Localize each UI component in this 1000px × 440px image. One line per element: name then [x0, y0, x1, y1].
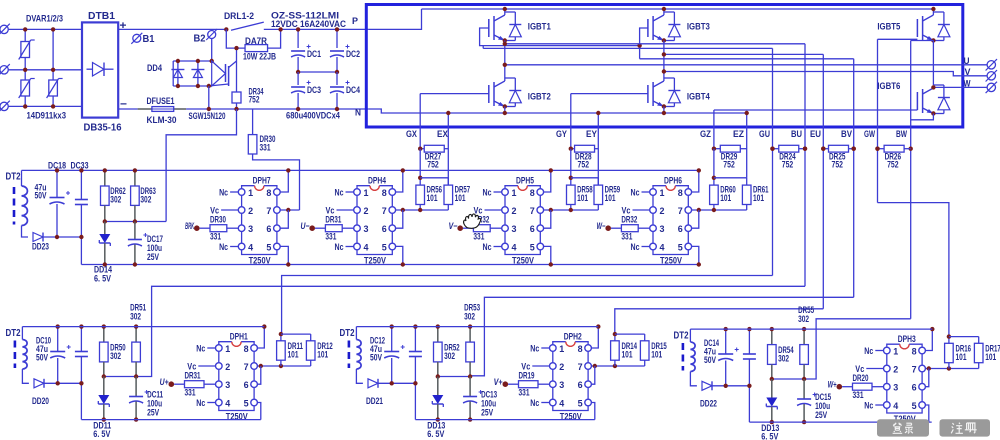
svg-text:U−: U−	[301, 221, 311, 231]
svg-text:GU: GU	[759, 129, 770, 139]
svg-text:302: 302	[444, 351, 455, 361]
fuse DFUSE1	[138, 108, 152, 110]
wire DPH7 pin7 line	[280, 209, 299, 211]
vertical GY	[570, 94, 572, 149]
svg-text:3: 3	[364, 224, 369, 235]
svg-text:1: 1	[248, 188, 254, 199]
svg-text:302: 302	[798, 314, 809, 324]
resistor DR32 331 (DPH5 input)	[457, 225, 463, 231]
svg-text:5: 5	[912, 401, 918, 412]
vertical BW	[911, 40, 934, 42]
wire DPH3 pin8 riser	[925, 329, 932, 350]
svg-text:3: 3	[893, 383, 898, 394]
wire top rail DPH1 block	[22, 326, 264, 328]
wire junction row	[104, 376, 136, 378]
wire L1 to bridge	[9, 28, 82, 30]
svg-text:302: 302	[464, 312, 475, 322]
svg-text:DC4: DC4	[346, 85, 360, 95]
svg-text:IGBT2: IGBT2	[528, 92, 551, 103]
zener DD11 6.5V	[103, 377, 105, 396]
svg-text:8: 8	[678, 188, 683, 199]
transistor IGBT5	[916, 19, 918, 37]
wire DPH5 pin7 line	[544, 209, 599, 211]
wire bottom rail DPH2 block	[415, 419, 594, 421]
transistor IGBT2	[488, 85, 490, 103]
svg-text:DPH1: DPH1	[230, 331, 248, 341]
svg-text:6: 6	[578, 380, 583, 391]
vertical EZ	[746, 113, 748, 178]
svg-text:4: 4	[225, 398, 231, 409]
glyph zhu (register)	[951, 423, 963, 434]
mid node wire	[298, 71, 337, 73]
svg-text:DC2: DC2	[346, 49, 360, 59]
resistor DR56 101 (gate)	[419, 149, 421, 185]
wire top rail DPH2 block	[356, 326, 598, 328]
resistor DR12 101	[310, 334, 312, 341]
resistor DR54 302	[771, 329, 773, 345]
svg-text:DRL1-2: DRL1-2	[224, 11, 254, 22]
collector riser + resistor DR34 752	[236, 48, 238, 92]
svg-text:DPH6: DPH6	[664, 175, 682, 185]
resistor DR58 101 (gate)	[570, 149, 572, 185]
svg-text:GZ: GZ	[700, 129, 711, 139]
wire DPH4 pin7 line	[396, 209, 449, 211]
resistor DR32 331 (DPH6 input)	[605, 225, 611, 231]
svg-text:331: 331	[853, 390, 864, 400]
svg-text:5: 5	[578, 398, 584, 409]
capacitor DC12 47u 50V	[391, 327, 393, 352]
svg-text:2: 2	[559, 362, 564, 373]
svg-text:5: 5	[244, 398, 250, 409]
wire W midpoint	[932, 41, 934, 86]
bridge rectifier DTB1	[82, 22, 118, 117]
svg-text:N: N	[355, 108, 361, 119]
svg-text:DTB1: DTB1	[88, 10, 115, 22]
wire top rail DPH3 block	[690, 328, 932, 330]
wire U midpoint	[504, 41, 506, 82]
varistor column wires	[24, 29, 26, 106]
svg-text:DC1: DC1	[307, 49, 321, 59]
wire P entry	[368, 9, 421, 29]
svg-text:101: 101	[427, 193, 438, 203]
junction dots varistor rows	[23, 27, 27, 31]
svg-text:50V: 50V	[704, 355, 716, 365]
wire internal P rail	[422, 8, 934, 10]
svg-text:1: 1	[512, 188, 518, 199]
svg-text:3: 3	[248, 224, 253, 235]
svg-text:25V: 25V	[481, 408, 493, 418]
svg-text:6: 6	[266, 224, 271, 235]
svg-text:W+: W+	[828, 380, 837, 390]
wire EU to DPH2 gate feed (line D)	[615, 309, 824, 334]
resistor DR16 101	[948, 337, 950, 344]
diode DD20	[34, 379, 44, 388]
wire DPH2 pin5 riser	[591, 403, 594, 420]
svg-text:302: 302	[140, 195, 151, 205]
resistor DR31 331 (DPH1 input)	[169, 381, 175, 387]
resistor DR26 752	[878, 148, 885, 150]
relay contact DRL1-2	[224, 27, 228, 31]
wire L2 to bridge	[9, 69, 82, 71]
svg-text:7: 7	[530, 206, 535, 217]
wire DPH5 pin8 riser	[544, 170, 551, 192]
svg-text:DD4: DD4	[147, 63, 163, 74]
svg-text:IGBT1: IGBT1	[528, 22, 552, 33]
terminal W	[987, 83, 995, 91]
wire DPH4 pin5 riser	[396, 246, 403, 264]
svg-text:331: 331	[325, 232, 336, 242]
wire emitter reference drop	[166, 109, 236, 222]
svg-text:6: 6	[530, 224, 535, 235]
wire DPH4 pin6 riser	[396, 210, 403, 228]
svg-text:5: 5	[382, 242, 388, 253]
resistor DR17 101	[978, 337, 980, 344]
svg-text:Nc: Nc	[530, 343, 539, 353]
input terminal L1	[0, 25, 8, 33]
vertical BV	[853, 59, 855, 297]
svg-text:25V: 25V	[147, 252, 159, 262]
glyph deng (login)	[893, 423, 903, 434]
svg-text:10W 22JB: 10W 22JB	[243, 52, 276, 63]
terminal B2	[208, 31, 216, 39]
svg-text:DPH3: DPH3	[898, 334, 916, 344]
svg-text:KLM-30: KLM-30	[147, 115, 177, 126]
zener DD13 6.5V	[771, 379, 773, 398]
svg-text:DD22: DD22	[700, 399, 717, 410]
optocoupler DPH4	[357, 186, 370, 189]
varistor DVAR2	[21, 80, 30, 96]
svg-text:4: 4	[248, 242, 254, 253]
wire IGBT6 emitter jog to BW	[911, 114, 934, 120]
svg-text:4: 4	[893, 401, 899, 412]
svg-text:7: 7	[266, 206, 271, 217]
svg-text:DR32: DR32	[621, 215, 637, 225]
svg-text:101: 101	[317, 350, 328, 360]
svg-text:Nc: Nc	[196, 343, 205, 353]
svg-text:DFUSE1: DFUSE1	[147, 96, 176, 107]
svg-text:DT2: DT2	[674, 331, 689, 342]
capacitor DC33	[80, 170, 82, 199]
wire U output	[505, 64, 961, 66]
svg-text:302: 302	[110, 351, 121, 361]
svg-text:BW: BW	[896, 129, 907, 139]
svg-text:Nc: Nc	[219, 242, 228, 252]
vertical EY	[597, 113, 599, 185]
svg-text:8: 8	[530, 188, 535, 199]
button register	[940, 419, 991, 436]
resistor DR14 101	[614, 334, 616, 341]
svg-text:DA7R: DA7R	[245, 36, 267, 47]
capacitor (unlabeled)	[748, 329, 750, 354]
svg-text:Nc: Nc	[335, 242, 344, 252]
capacitor (unlabeled)	[80, 327, 82, 352]
vertical GW	[877, 39, 879, 202]
svg-text:1: 1	[660, 188, 666, 199]
resistor DR24 752	[773, 148, 779, 150]
svg-text:8: 8	[266, 188, 271, 199]
svg-text:25V: 25V	[147, 408, 159, 418]
optocoupler DPH1	[219, 342, 232, 345]
diode inside bridge	[93, 63, 105, 77]
wire BW to DPH3 supply	[804, 319, 911, 379]
svg-text:50V: 50V	[370, 353, 382, 363]
wire DPH3 pin5 riser	[925, 405, 928, 422]
resistor DR59 101	[594, 185, 603, 204]
wire DPH4 pin8 riser	[396, 170, 403, 192]
vertical GX	[419, 94, 421, 149]
svg-text:7: 7	[578, 362, 583, 373]
svg-text:EZ: EZ	[733, 129, 744, 139]
vertical EX	[447, 113, 449, 185]
wire DPH2 pin7 line	[591, 365, 644, 367]
wire IGBT6 gate to GZ	[714, 109, 918, 111]
wire middle top rail	[22, 169, 699, 171]
svg-text:T250V: T250V	[512, 256, 534, 266]
wire U-mid emitter tap to BU	[505, 43, 805, 45]
svg-text:Nc: Nc	[530, 398, 539, 408]
svg-text:DB35-16: DB35-16	[84, 122, 122, 134]
svg-text:101: 101	[753, 193, 764, 203]
svg-text:8: 8	[912, 346, 917, 357]
wire N bus	[118, 108, 137, 110]
wire IGBT2 gate to GX	[420, 93, 489, 95]
wire IGBT1 gate line	[480, 28, 640, 46]
transistor IGBT4	[647, 85, 649, 103]
resistor DR31 331 (DPH4 input)	[309, 225, 315, 231]
svg-text:GY: GY	[556, 129, 567, 139]
svg-text:Nc: Nc	[864, 346, 873, 356]
svg-text:752: 752	[832, 160, 844, 170]
wire BV to DPH2 supply (line C)	[470, 297, 854, 376]
button login	[877, 419, 929, 436]
wire junction row	[438, 376, 470, 378]
diode DD22	[702, 381, 712, 390]
transistor IGBT6	[916, 92, 918, 110]
svg-text:25V: 25V	[815, 410, 827, 420]
svg-text:1: 1	[559, 344, 565, 355]
capacitor DC4	[336, 72, 338, 85]
svg-text:+: +	[120, 20, 127, 32]
svg-text:101: 101	[956, 352, 967, 362]
svg-text:6: 6	[244, 380, 249, 391]
svg-text:6. 5V: 6. 5V	[761, 432, 779, 440]
capacitor DC13 100u 25V	[469, 377, 471, 397]
zener DD14 6.5V	[104, 222, 106, 235]
svg-text:5: 5	[530, 242, 536, 253]
svg-text:T250V: T250V	[249, 256, 271, 266]
svg-text:4: 4	[364, 242, 370, 253]
svg-text:6: 6	[678, 224, 683, 235]
svg-text:IGBT5: IGBT5	[877, 22, 901, 33]
wire DPH6 pin6 riser	[692, 210, 699, 228]
svg-text:DC3: DC3	[307, 85, 321, 95]
resistor DR53 302	[469, 327, 471, 343]
capacitor DC2	[336, 29, 338, 48]
wire IGBT4 gate to GY	[571, 93, 648, 95]
varistor DVAR3	[49, 80, 58, 96]
capacitor DC10 47u 50V	[57, 327, 59, 352]
svg-text:2: 2	[512, 206, 517, 217]
svg-text:50V: 50V	[35, 191, 47, 201]
svg-text:Nc: Nc	[219, 187, 228, 197]
svg-text:6: 6	[382, 224, 387, 235]
svg-text:331: 331	[260, 143, 271, 153]
svg-text:1: 1	[893, 346, 899, 357]
wire IGBT2 emitter to N	[504, 107, 506, 114]
svg-text:302: 302	[778, 354, 789, 364]
svg-text:7: 7	[382, 206, 387, 217]
transistor IGBT3	[647, 19, 649, 37]
capacitor DC18 47u 50V	[56, 170, 58, 197]
svg-text:1: 1	[225, 344, 231, 355]
svg-text:302: 302	[130, 312, 141, 322]
transistor IGBT1	[488, 19, 490, 37]
wire DPH6 pin7 line	[692, 209, 747, 211]
svg-text:302: 302	[110, 195, 121, 205]
svg-text:331: 331	[473, 232, 484, 242]
resistor DR29 752	[714, 148, 720, 150]
wire N entry	[368, 109, 746, 113]
svg-text:680u400VDCx4: 680u400VDCx4	[286, 110, 340, 120]
resistor DR51 302	[135, 327, 137, 343]
terminal V	[987, 72, 995, 80]
resistor DR61 101	[742, 185, 751, 204]
wire BU to DPH1 supply (line B)	[136, 286, 805, 376]
svg-text:DR20: DR20	[853, 373, 869, 383]
input terminal L3	[0, 102, 8, 110]
wire DPH1 pin7 line	[257, 365, 310, 367]
svg-text:GW: GW	[864, 129, 875, 139]
wire DR16/DR17 top jog	[949, 336, 979, 338]
svg-text:5: 5	[678, 242, 684, 253]
svg-text:2: 2	[660, 206, 665, 217]
resistor DR57 101	[444, 185, 453, 204]
wire bottom rail DPH1 block	[81, 419, 260, 421]
vertical BU	[804, 44, 806, 286]
wire DPH3 pin7 line	[925, 368, 978, 370]
svg-text:GX: GX	[406, 129, 417, 139]
resistor DR52 302	[437, 327, 439, 343]
wire GU to DPH1 gate feed (line A)	[282, 276, 773, 335]
resistor DA7R (parallel with relay)	[226, 29, 245, 48]
svg-text:8: 8	[578, 344, 583, 355]
svg-text:752: 752	[887, 160, 899, 170]
optocoupler DPH6	[653, 186, 666, 189]
svg-text:752: 752	[249, 95, 260, 105]
svg-text:50V: 50V	[36, 353, 48, 363]
svg-text:101: 101	[622, 350, 633, 360]
wire gate-emitter jog	[714, 177, 747, 179]
svg-text:DR30: DR30	[210, 215, 226, 225]
svg-text:4: 4	[660, 242, 666, 253]
svg-text:101: 101	[651, 350, 662, 360]
wire DPH5 pin6 riser	[544, 210, 551, 228]
svg-text:3: 3	[512, 224, 517, 235]
capacitor DC17 100u 25V	[134, 222, 136, 240]
svg-text:1: 1	[364, 188, 370, 199]
wire gate-emitter jog	[420, 177, 448, 179]
svg-text:2: 2	[893, 364, 898, 375]
svg-text:Nc: Nc	[483, 242, 492, 252]
IGBT module box	[366, 5, 963, 128]
resistor DR27 752	[420, 148, 424, 150]
svg-text:Nc: Nc	[864, 400, 873, 410]
wire L3 to bridge	[9, 105, 82, 107]
wire middle junction row	[105, 221, 166, 223]
wire to W terminal	[961, 86, 987, 88]
wire DPH1 pin5 riser	[257, 403, 260, 420]
input terminal L2	[0, 66, 8, 74]
svg-text:DT2: DT2	[6, 172, 21, 183]
svg-text:V−: V−	[449, 221, 459, 231]
resistor DR62 302	[104, 170, 106, 186]
svg-text:101: 101	[288, 350, 299, 360]
wire DPH1 pin8 riser	[257, 327, 264, 348]
svg-text:101: 101	[720, 193, 731, 203]
glyph ce (register)	[965, 423, 977, 433]
wire DPH7 pin8 riser	[280, 170, 288, 192]
svg-text:101: 101	[455, 193, 466, 203]
svg-text:752: 752	[578, 160, 590, 170]
wire DPH6 pin5 riser	[692, 246, 699, 264]
mouse cursor (hand)	[464, 214, 481, 228]
wire to V terminal	[961, 75, 987, 77]
capacitor DC1	[297, 29, 299, 48]
wire DPH2 pin6 riser	[591, 366, 594, 384]
svg-text:7: 7	[678, 206, 683, 217]
wire IGBT5 gate to GW	[878, 38, 918, 40]
svg-text:752: 752	[723, 160, 735, 170]
svg-text:DT2: DT2	[340, 328, 355, 339]
svg-text:IGBT4: IGBT4	[687, 92, 711, 103]
wire to U terminal	[961, 64, 987, 66]
svg-text:6: 6	[912, 383, 917, 394]
svg-text:EU: EU	[810, 129, 821, 139]
capacitor DC3	[297, 72, 299, 85]
resistor DR19 331 (DPH2 input)	[503, 381, 509, 387]
wire W output	[933, 86, 960, 88]
wire P bus	[118, 28, 226, 30]
svg-text:101: 101	[985, 352, 996, 362]
svg-text:B2: B2	[194, 34, 206, 45]
svg-text:6. 5V: 6. 5V	[94, 274, 112, 285]
svg-text:DC18: DC18	[48, 161, 66, 171]
svg-text:2: 2	[225, 362, 230, 373]
wire DR11/DR12 top jog	[281, 333, 311, 335]
glyph lu (login)	[905, 423, 913, 433]
svg-text:P: P	[352, 16, 359, 27]
wire gate line to BV	[640, 58, 854, 60]
svg-text:DR31: DR31	[185, 371, 201, 381]
resistor DR25 752	[823, 148, 828, 150]
wire GW to DPH3 gate feed	[878, 203, 949, 337]
capacitor DC15 100u 25V	[803, 379, 805, 399]
capacitor DC14 47u 50V	[725, 329, 727, 354]
wire IGBT3 gate hook	[640, 28, 648, 59]
svg-text:6. 5V: 6. 5V	[93, 429, 111, 440]
vertical EU	[822, 54, 824, 308]
optocoupler DPH7	[242, 186, 255, 189]
svg-text:DT2: DT2	[6, 328, 21, 339]
svg-text:7: 7	[244, 362, 249, 373]
svg-text:DPH7: DPH7	[253, 175, 271, 185]
svg-text:8: 8	[244, 344, 249, 355]
svg-text:DD23: DD23	[32, 242, 49, 253]
resistor DR55 302	[803, 329, 805, 345]
wire DPH5 pin5 riser	[544, 246, 551, 264]
wire DPH3 pin6 riser	[925, 369, 928, 387]
svg-text:Nc: Nc	[196, 398, 205, 408]
